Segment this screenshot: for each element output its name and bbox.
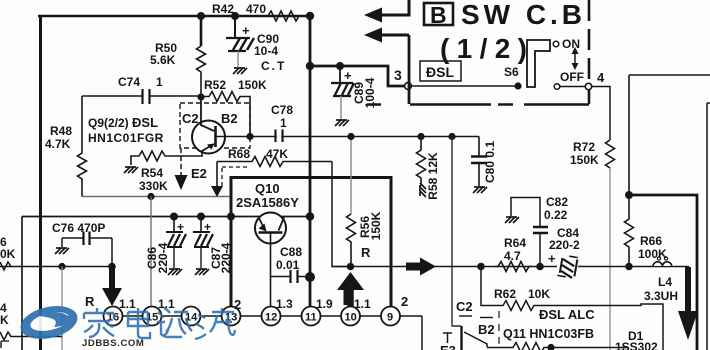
right inner vertical border [707, 103, 710, 350]
svg-text:4.7K: 4.7K [45, 137, 71, 151]
scan marks bottom left corner [1, 341, 9, 348]
terminal 4 open circle [585, 83, 591, 89]
svg-text:2: 2 [401, 294, 408, 309]
wire terminal3 to S6 [412, 85, 517, 87]
wire R72 down [609, 168, 611, 350]
svg-text:1SS302: 1SS302 [615, 340, 658, 350]
svg-text:E2: E2 [191, 166, 207, 181]
resistor R52 [201, 78, 267, 136]
thick box around Q10 (pin13 to pin9 path) [231, 178, 391, 307]
svg-text:ON: ON [562, 37, 580, 51]
svg-text:47K: 47K [266, 147, 288, 161]
wire R68 to R56 bottom [332, 162, 350, 267]
node junction bus/C89 branch [306, 62, 314, 70]
svg-text:R54: R54 [141, 166, 163, 180]
transistor Q9 [167, 97, 479, 156]
svg-text:Q10: Q10 [255, 181, 280, 196]
node junction R58 top [417, 133, 424, 140]
capacitor C84 [548, 226, 580, 278]
node junction R50/C74/R52/Q9 collector [197, 93, 204, 100]
wire x62 down [61, 267, 63, 350]
wire riser to pin 15 [150, 197, 152, 308]
node junction C87 [197, 213, 205, 221]
ground below C87 [195, 269, 209, 275]
svg-text:1.9: 1.9 [316, 297, 333, 311]
svg-text:(1/2): (1/2) [440, 33, 528, 64]
node junction C88/bus big dot [305, 272, 315, 282]
svg-text:K: K [0, 313, 9, 327]
dashed block right border [588, 0, 591, 104]
svg-text:C2: C2 [456, 299, 473, 314]
capacitor C86 [145, 217, 186, 274]
svg-text:+: + [204, 220, 211, 234]
svg-text:ĐSL: ĐSL [426, 64, 454, 80]
svg-text:0.01: 0.01 [276, 258, 300, 272]
off-page arrow to terminal 3 [364, 28, 409, 105]
node junction bus/rail [306, 212, 314, 220]
watermark logo [17, 301, 80, 344]
thick feed line right [629, 195, 697, 350]
node junction R56 bottom [347, 263, 355, 271]
transistor Q10 [255, 213, 286, 308]
svg-text:0.22: 0.22 [544, 208, 568, 222]
capacitor C76 [52, 221, 112, 267]
left edge rail y=336.5 [10, 336, 62, 338]
svg-text:1: 1 [280, 116, 287, 130]
svg-text:R: R [85, 294, 95, 309]
flow arrow down to pin 16 [102, 267, 122, 307]
wire terminal 4 down to R72 [592, 87, 610, 141]
capacitor C87 [193, 217, 233, 274]
capacitor C80 [471, 137, 497, 187]
capacitor C90 [226, 16, 286, 73]
wire top rail [38, 15, 310, 18]
svg-text:B2: B2 [221, 111, 238, 126]
svg-text:+: + [242, 23, 250, 38]
svg-text:5.6K: 5.6K [150, 53, 176, 67]
capacitor C74 [82, 75, 201, 104]
svg-text:Q11 HN1C03FB: Q11 HN1C03FB [503, 327, 594, 341]
pin 16 [104, 307, 123, 326]
svg-text:C2: C2 [182, 111, 199, 126]
svg-text:E3: E3 [440, 343, 456, 350]
terminal 3 open circle [405, 83, 412, 90]
svg-text:SW C.B: SW C.B [461, 0, 583, 30]
svg-text:220-4: 220-4 [219, 242, 233, 273]
resistor R56 [347, 137, 384, 267]
node junction C90 tap [231, 12, 239, 20]
resistor at Q11 emitter bottom [487, 343, 627, 350]
node junction C89 [336, 62, 344, 70]
svg-text:+: + [548, 251, 556, 266]
svg-text:1.3: 1.3 [276, 297, 293, 311]
wire Q9 emitter bottom rail [82, 196, 231, 198]
resistor R48 [45, 96, 87, 197]
svg-text:R64: R64 [504, 236, 526, 250]
wire OFF to terminal 4 [560, 86, 585, 88]
node junction C2 line [448, 133, 455, 140]
pin 14 [182, 307, 201, 326]
inductor L4 [644, 257, 678, 303]
svg-text:HN1C01FGR: HN1C01FGR [88, 131, 164, 145]
node junction R64/R62 [477, 263, 485, 271]
DSL box label [420, 61, 461, 81]
capacitor C78 [271, 103, 293, 144]
svg-text:C76 470P: C76 470P [52, 221, 105, 235]
svg-text:3.3UH: 3.3UH [644, 289, 678, 303]
ground below C89 [335, 120, 349, 126]
svg-text:C.T: C.T [261, 59, 286, 73]
svg-text:1.1: 1.1 [354, 297, 371, 311]
off-page arrow upper left [364, 0, 409, 23]
svg-text:100K: 100K [638, 247, 667, 261]
pin 9 [381, 307, 400, 326]
node S6 contact [514, 82, 521, 89]
ground below C82 left leg [505, 217, 519, 223]
svg-text:S6: S6 [504, 65, 519, 79]
pin 11 [302, 307, 321, 326]
svg-text:4: 4 [597, 70, 605, 85]
resistor R54 [131, 151, 168, 193]
svg-text:1: 1 [156, 75, 163, 89]
dashed box C2/B2 around Q9 [180, 103, 250, 148]
svg-text:0K: 0K [0, 247, 16, 261]
svg-text:470: 470 [246, 2, 266, 16]
wire thick branch to terminal 3 [310, 66, 404, 86]
transistor Q11 partial [443, 326, 487, 350]
svg-text:12: 12 [265, 312, 277, 324]
flow arrow up at pin 10 [338, 273, 363, 306]
pin 12 [262, 307, 281, 326]
svg-text:C80 0.1: C80 0.1 [483, 141, 497, 183]
svg-text:150K: 150K [238, 78, 267, 92]
capacitor C82 [511, 195, 568, 267]
svg-text:2: 2 [234, 297, 241, 312]
svg-text:10-4: 10-4 [254, 44, 278, 58]
svg-text:C78: C78 [271, 103, 293, 117]
svg-text:R52: R52 [204, 78, 226, 92]
svg-text:9: 9 [387, 312, 393, 324]
resistor R66 [625, 195, 668, 267]
resistor R72 [570, 140, 615, 168]
svg-text:JDBBS.COM: JDBBS.COM [82, 338, 144, 349]
node junction R66 top [625, 191, 633, 199]
left edge rail y=266.5 [0, 266, 112, 268]
wire thick center bus [309, 16, 312, 307]
svg-text:L4: L4 [658, 275, 672, 289]
resistor R68 [217, 147, 332, 167]
node junction top of thick bus [306, 12, 314, 20]
ground below C76 left [55, 248, 69, 254]
svg-text:R: R [361, 245, 371, 260]
node junction on top rail [197, 12, 205, 20]
svg-text:ĐSL ALC: ĐSL ALC [539, 307, 595, 322]
capacitor C88 [271, 245, 311, 283]
node junction R56 top [347, 133, 354, 140]
svg-text:+: + [344, 68, 352, 83]
right outer box left edge [628, 75, 630, 195]
flow arrow up at R56 node [337, 272, 364, 305]
svg-text:220-4: 220-4 [156, 242, 170, 273]
switch updown arrow [572, 47, 579, 70]
switch ON contact [553, 41, 559, 47]
svg-text:C74: C74 [118, 75, 140, 89]
IC pin row wire [103, 316, 422, 350]
dashed jog near B2 [222, 167, 247, 186]
dashed E2 pointer with arrow [175, 148, 207, 190]
switch S6 lever [527, 40, 550, 87]
svg-text:10K: 10K [528, 287, 550, 301]
node junction pin15 riser [147, 193, 154, 200]
arrow from R68 down to emitter rail [211, 162, 223, 198]
node junction C76/pin16 [108, 263, 116, 271]
svg-text:R58 12K: R58 12K [426, 152, 440, 200]
ground below R58 (rotated) [420, 183, 426, 197]
resistor R42 [212, 2, 305, 21]
svg-text:2SA1586Y: 2SA1586Y [236, 195, 299, 210]
svg-text:1.1: 1.1 [119, 297, 136, 311]
svg-text:R66: R66 [640, 234, 662, 248]
svg-text:C82: C82 [546, 195, 568, 209]
svg-text:R72: R72 [573, 140, 595, 154]
resistor stub at left edge [0, 262, 11, 270]
block label B box [424, 3, 453, 25]
ground below C90 [233, 68, 247, 74]
right outer box top [629, 74, 710, 76]
capacitor C89 [331, 66, 377, 119]
resistor R58 [417, 137, 441, 200]
node junction thick path crossing rail [227, 213, 235, 221]
pin 15 [143, 307, 162, 326]
watermark characters [84, 308, 235, 339]
resistor R64 [495, 236, 532, 272]
svg-text:B2: B2 [478, 322, 495, 337]
resistor R50 [150, 16, 206, 97]
svg-text:150K: 150K [570, 153, 599, 167]
svg-text:10: 10 [345, 312, 357, 324]
ground below C86 [168, 269, 182, 275]
wire left thin vertical [21, 217, 23, 350]
pin 13 [222, 307, 241, 326]
dashed block bottom border [367, 103, 589, 106]
ground below R54 [124, 167, 138, 173]
node junction base/R52/R68 [246, 133, 253, 140]
svg-text:C88: C88 [280, 245, 302, 259]
off-page arrow down bottom right [678, 267, 698, 340]
svg-text:220-2: 220-2 [549, 238, 580, 252]
wire left vertical bus [39, 15, 42, 350]
node junction x62 [58, 263, 65, 270]
label B2 with dash [480, 317, 493, 319]
svg-text:330K: 330K [139, 179, 168, 193]
svg-text:Q9(2/2) ĐSL: Q9(2/2) ĐSL [88, 115, 158, 130]
svg-text:R68: R68 [228, 147, 250, 161]
resistor stub at left edge lower [0, 332, 11, 340]
svg-text:4.7: 4.7 [504, 249, 521, 263]
svg-text:150K: 150K [369, 211, 383, 240]
pin 10 [341, 307, 360, 326]
svg-text:11: 11 [305, 312, 317, 324]
wire C86/C87/Q10 rail [22, 216, 310, 218]
wire C2 vertical to Q11 [452, 137, 461, 327]
svg-text:R62: R62 [494, 287, 516, 301]
svg-text:OFF: OFF [560, 70, 584, 84]
svg-text:+: + [177, 220, 184, 234]
main signal rail right [332, 266, 689, 268]
node junction C86 [170, 213, 178, 221]
svg-text:R48: R48 [50, 124, 72, 138]
node junction C82/C84 [536, 263, 544, 271]
ground below C80 [473, 187, 487, 193]
node junction R66 bottom [625, 263, 633, 271]
svg-text:B: B [430, 2, 447, 28]
svg-text:R42: R42 [212, 2, 234, 16]
svg-text:3: 3 [394, 67, 402, 83]
resistor R62 [481, 267, 663, 350]
flow arrow right on rail [406, 258, 436, 276]
